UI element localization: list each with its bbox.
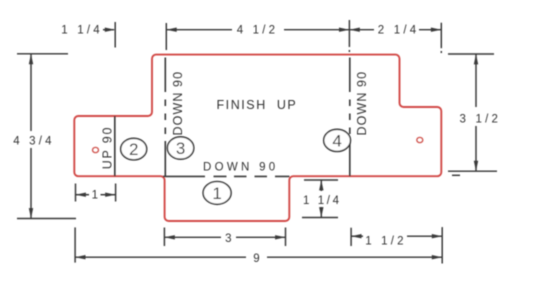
svg-text:4 1/2: 4 1/2: [237, 25, 279, 37]
balloon 1: [203, 182, 231, 205]
bend line 1 (DOWN 90, dashed horizontal): [163, 175, 290, 177]
dim 9: dimension line: [75, 256, 246, 258]
svg-text:1 1/2: 1 1/2: [365, 235, 407, 247]
dim 1 1/4 top-left: leader arrow: [103, 29, 114, 31]
dim 2 1/4: dimension line: [349, 29, 374, 31]
bend line 2 (UP 90, solid): [114, 116, 116, 176]
dim 4 1/2: dimension line: [166, 29, 232, 31]
svg-text:DOWN 90: DOWN 90: [203, 161, 279, 173]
dim 2 1/4: extension tick right: [440, 23, 442, 49]
dim 3 1/2 right: extension bars: [448, 53, 494, 55]
balloon 2: [121, 138, 147, 160]
dim 1 1/4 bottom tab: extension bars: [304, 179, 338, 181]
svg-text:2: 2: [129, 140, 138, 159]
dim 1 1/4 top-left: extension tick: [114, 22, 116, 48]
hole left: [93, 147, 99, 152]
svg-text:3 1/2: 3 1/2: [460, 114, 502, 126]
dim 3 bottom: extension ticks: [163, 228, 165, 247]
bend line 3 (DOWN 90, dashed): [164, 58, 166, 177]
svg-text:4 3/4: 4 3/4: [13, 136, 55, 148]
dim 1 bottom-left: extension ticks: [75, 184, 77, 202]
dim 1 1/2 bottom-right: extension ticks: [350, 228, 352, 246]
bend line 4 (DOWN 90, dashed): [349, 58, 351, 177]
svg-text:1: 1: [92, 190, 98, 202]
svg-text:1: 1: [212, 184, 221, 203]
svg-text:1 1/4: 1 1/4: [61, 25, 103, 37]
svg-text:DOWN 90: DOWN 90: [355, 71, 369, 136]
svg-text:4: 4: [332, 131, 341, 150]
svg-text:9: 9: [253, 253, 259, 265]
dim 1 1/2: dimension line: [351, 235, 363, 237]
dim 3: dimension line: [164, 236, 221, 238]
svg-text:2 1/4: 2 1/4: [378, 24, 420, 36]
dim 1 1/4 bottom tab: dimension line: [320, 180, 322, 191]
svg-text:DOWN 90: DOWN 90: [171, 71, 185, 136]
svg-text:FINISH UP: FINISH UP: [217, 98, 298, 112]
dim 9 bottom: extension tick left: [74, 227, 76, 262]
hole right: [417, 137, 423, 142]
svg-text:3: 3: [225, 233, 231, 245]
svg-text:UP 90: UP 90: [101, 126, 115, 170]
part outline (red flat pattern): [74, 55, 441, 221]
dim 4 1/2: extension ticks: [165, 23, 167, 50]
dim 1: dimension line: [76, 194, 90, 196]
balloon 3: [167, 137, 193, 159]
dim 4 3/4: dimension line: [30, 54, 32, 131]
dim 4 3/4 left: extension bars: [17, 53, 68, 55]
svg-text:1 1/4: 1 1/4: [303, 195, 342, 207]
dim 3 1/2: dimension line: [475, 54, 477, 107]
svg-text:3: 3: [176, 139, 185, 158]
balloon 4: [324, 129, 351, 151]
